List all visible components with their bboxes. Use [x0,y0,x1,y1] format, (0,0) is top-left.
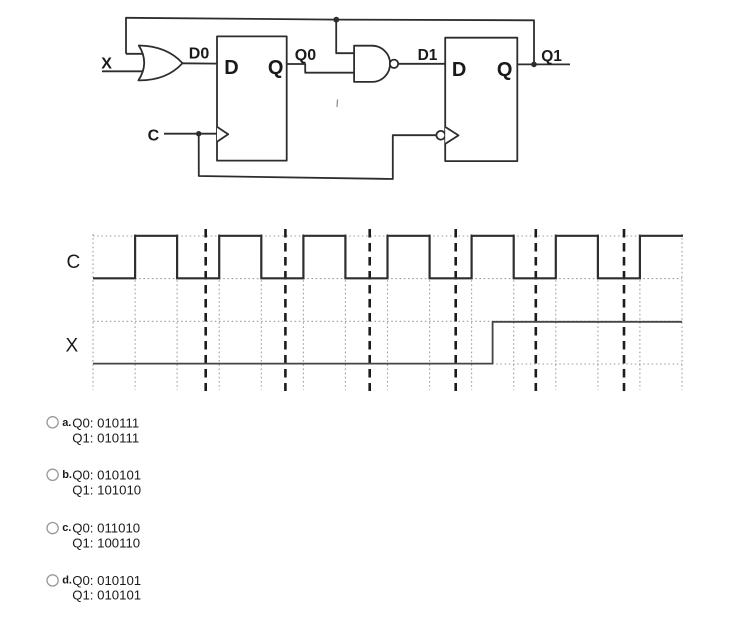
svg-text:b.: b. [62,469,72,481]
wire NAND top input drop [336,20,354,54]
option a radio button [47,417,58,428]
waveform X [93,322,682,364]
wire OR gate top input stub [126,53,146,55]
flip-flop U2 clock triangle [445,127,458,144]
svg-text:Q1: Q1 [541,48,562,65]
flip-flop U1 body [217,36,287,160]
svg-text:Q0: Q0 [295,47,316,64]
svg-text:Q0: 010101: Q0: 010101 [72,468,141,483]
svg-text:X: X [101,55,112,72]
flip-flop U2 body [445,38,517,161]
svg-text:Q0: 010111: Q0: 010111 [72,416,139,431]
svg-text:D: D [452,59,466,81]
svg-text:c.: c. [62,522,71,534]
svg-text:D: D [224,57,238,79]
flip-flop U1 clock triangle [217,127,228,142]
timing grid horizontal dotted lines [93,236,682,364]
node Q1 junction [531,62,537,68]
svg-text:Q1: 100110: Q1: 100110 [72,536,140,551]
svg-text:C: C [148,128,160,145]
svg-text:D1: D1 [418,47,438,64]
wire Q1 output [517,63,570,65]
wire Q0 net (FF1 Q to NAND input) [287,64,355,73]
option c radio button [47,523,58,534]
svg-text:Q0: 011010: Q0: 011010 [72,521,140,536]
svg-text:Q1: 010111: Q1: 010111 [72,431,139,446]
svg-text:Q1: 010101: Q1: 010101 [72,588,141,603]
node top junction [333,17,339,23]
wire X input [102,70,147,72]
scan artifact mark [336,100,339,108]
svg-text:D0: D0 [189,46,210,63]
wire C input [164,133,217,135]
timing grid vertical dotted lines [93,234,682,390]
node C junction [196,131,201,136]
flip-flop U2 clock bubble [436,131,445,140]
svg-text:Q: Q [268,57,284,79]
clock edge marker dashed lines [206,229,624,391]
option d radio button [47,575,58,586]
nand-gate G2 output bubble [390,60,398,68]
wire D0 net (OR output to FF1 D) [183,62,218,64]
wire D1 net (NAND output to FF2 D) [398,63,445,65]
svg-text:a.: a. [62,417,71,429]
svg-text:X: X [66,336,79,357]
svg-text:Q0: 010101: Q0: 010101 [72,573,141,588]
svg-text:d.: d. [62,574,72,586]
svg-text:Q: Q [497,59,513,81]
wire C to FF2 clock [199,134,437,179]
option b radio button [47,469,58,480]
wire top feedback run (Q1 to OR gate input and NAND input) [126,18,534,65]
or-gate G1 [138,46,182,81]
waveform C [93,236,683,278]
nand-gate G2 body [354,46,390,82]
svg-text:Q1: 101010: Q1: 101010 [72,483,141,498]
svg-text:C: C [67,252,81,273]
